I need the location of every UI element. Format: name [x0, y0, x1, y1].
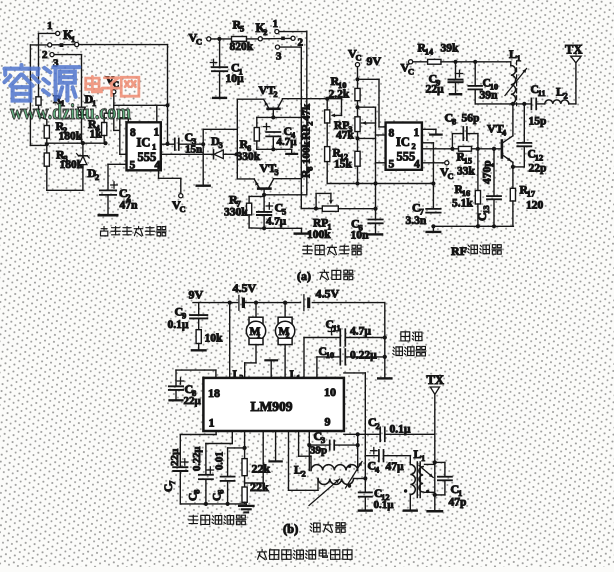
- capacitor C10r 0.22u: [317, 346, 385, 377]
- svg-text:1: 1: [516, 53, 520, 63]
- label demod filter: [393, 332, 426, 356]
- resistor 22k first: [242, 459, 271, 476]
- svg-text:10k: 10k: [205, 333, 224, 345]
- resistor R2 180k: [44, 119, 83, 143]
- svg-text:TX: TX: [427, 373, 444, 387]
- svg-text:22µ: 22µ: [426, 84, 445, 96]
- svg-text:47µ: 47µ: [386, 461, 405, 473]
- bottom rail RF: [433, 225, 513, 227]
- switch K2: [256, 18, 304, 63]
- IC1 555: [127, 122, 161, 171]
- svg-text:2: 2: [304, 121, 314, 125]
- svg-text:7: 7: [167, 480, 177, 485]
- wire IC2 pin right to C7 column: [422, 143, 434, 209]
- svg-text:9V: 9V: [189, 288, 204, 302]
- svg-text:IC: IC: [137, 136, 151, 150]
- wire VT2 collector line: [271, 99, 341, 120]
- svg-text:C: C: [196, 36, 202, 46]
- capacitor C6r 0.01: [212, 431, 247, 504]
- transformer L1r: [404, 447, 433, 498]
- svg-text:2: 2: [301, 468, 305, 478]
- svg-text:0.22µ: 0.22µ: [350, 350, 377, 362]
- svg-text:18: 18: [208, 386, 220, 400]
- resistor R4 1k: [88, 113, 114, 143]
- Vc terminal R14: [401, 60, 428, 77]
- svg-text:C: C: [355, 52, 361, 62]
- capacitor C1 10u: [210, 39, 244, 97]
- resistor R3 180k: [44, 145, 84, 171]
- antenna TX receiver: [427, 373, 444, 462]
- svg-text:0.22µ: 0.22µ: [192, 447, 203, 471]
- svg-text:17: 17: [527, 188, 536, 198]
- capacitor C6 10n: [351, 209, 383, 242]
- motor M1: [233, 303, 266, 383]
- svg-text:2: 2: [42, 49, 48, 61]
- svg-text:C: C: [447, 171, 453, 181]
- ground C1: [213, 97, 226, 99]
- svg-text:4: 4: [375, 464, 380, 474]
- receiver filter rail: [180, 502, 246, 506]
- wire RF bottom: [475, 102, 531, 106]
- capacitor C4r 47u: [365, 448, 410, 475]
- resistor R7 330k: [224, 193, 264, 229]
- svg-text:0.1µ: 0.1µ: [374, 499, 395, 511]
- Vc terminal 9V: [348, 47, 382, 89]
- svg-text:LM909: LM909: [251, 399, 293, 414]
- capacitor C12r 0.1u: [359, 488, 395, 511]
- svg-text:470p: 470p: [482, 160, 494, 184]
- capacitor C11r 4.7u: [304, 319, 385, 378]
- svg-text:47n: 47n: [120, 200, 139, 212]
- wire right loop ground: [428, 462, 442, 511]
- IC LM909: [203, 378, 344, 431]
- wire K1 arm to IC1 drop: [79, 45, 168, 144]
- capacitor C5 4.7u: [257, 201, 287, 231]
- ground mini C4: [286, 153, 297, 155]
- svg-text:5.1k: 5.1k: [452, 198, 473, 210]
- transistor VT3: [254, 161, 278, 195]
- wire pin4 to Vc: [159, 170, 186, 214]
- svg-text:22µ: 22µ: [169, 448, 181, 466]
- svg-text:1: 1: [414, 127, 420, 139]
- capacitor C10 39n: [468, 62, 498, 104]
- capacitor C7 3.3n: [406, 201, 441, 229]
- capacitor C9 22u: [426, 62, 463, 96]
- ground C3 node: [197, 184, 210, 186]
- wire pin stub L2r lower: [289, 431, 319, 490]
- svg-text:0.1µ: 0.1µ: [168, 319, 189, 331]
- wire K2 contact1 drop: [279, 32, 307, 195]
- svg-text:2: 2: [95, 172, 99, 182]
- capacitor C12 22p: [517, 104, 546, 174]
- wire K2c3 down to RP1: [301, 179, 322, 209]
- wire L1r winding links: [425, 464, 435, 492]
- wire VT4 emitter down: [511, 162, 524, 188]
- potentiometer RP3 47k: [334, 117, 376, 152]
- wire L1r left ground: [404, 495, 417, 511]
- ground battery column: [378, 377, 391, 379]
- svg-text:2.2k: 2.2k: [329, 89, 350, 101]
- wire C4 bottom to mini ground: [257, 149, 292, 153]
- svg-text:9: 9: [325, 415, 331, 429]
- ground filter rail: [239, 504, 253, 513]
- transistor VT4: [487, 122, 513, 163]
- resistor R16 5.1k: [452, 149, 481, 229]
- svg-text:820k: 820k: [230, 41, 254, 53]
- svg-text:2: 2: [263, 27, 267, 37]
- svg-text:3: 3: [274, 167, 278, 177]
- svg-text:330k: 330k: [224, 207, 248, 219]
- resistor 22k second: [242, 476, 269, 504]
- svg-text:2: 2: [273, 89, 277, 99]
- rail from LM909 corner: [344, 432, 380, 436]
- svg-text:3.3n: 3.3n: [406, 215, 427, 227]
- svg-text:39n: 39n: [480, 90, 499, 102]
- svg-text:15k: 15k: [334, 159, 353, 171]
- svg-text:1: 1: [154, 127, 160, 139]
- ground 10k: [192, 349, 206, 351]
- svg-text:C: C: [179, 204, 185, 214]
- svg-text:0.01: 0.01: [215, 452, 226, 470]
- svg-text:4.5V: 4.5V: [233, 281, 257, 295]
- svg-text:10: 10: [324, 385, 336, 399]
- resistor R6 330k: [237, 128, 261, 164]
- svg-text:RF: RF: [451, 244, 467, 258]
- capacitor C2 47n: [100, 182, 138, 215]
- wire IC2 output: [422, 147, 459, 151]
- resistor R1: [36, 92, 65, 126]
- svg-text:5: 5: [130, 159, 136, 171]
- svg-text:3: 3: [321, 435, 325, 445]
- battery B2 4.5V: [304, 287, 340, 311]
- pin stub bracket: [266, 360, 278, 378]
- wire Vc to IC2 pin8: [358, 79, 386, 127]
- svg-text:9V: 9V: [367, 54, 382, 68]
- inductor L1 adjustable: [505, 47, 527, 106]
- label RF oscillator: [451, 244, 502, 258]
- wire VT3 collector right: [273, 178, 301, 180]
- audio rail: [327, 181, 435, 185]
- svg-text:330k: 330k: [237, 151, 261, 163]
- svg-text:8: 8: [130, 127, 136, 139]
- IC2 555: [386, 123, 422, 171]
- ground C9: [450, 93, 461, 95]
- motor M2: [275, 303, 300, 383]
- wire R6 top link: [257, 117, 302, 127]
- svg-text:22p: 22p: [529, 163, 547, 175]
- svg-text:RP: RP: [301, 125, 313, 140]
- resistor R8 100k: [325, 123, 330, 184]
- wire Vc to pin8 bracket: [120, 118, 129, 155]
- svg-text:22µ: 22µ: [184, 395, 202, 407]
- ground VT3 net: [295, 232, 309, 234]
- ground C12r: [359, 509, 372, 511]
- watermark dianziwang: [86, 76, 139, 96]
- svg-text:1k: 1k: [90, 129, 103, 141]
- svg-text:11: 11: [538, 88, 546, 98]
- resistor 10k: [196, 330, 223, 350]
- svg-text:15p: 15p: [529, 116, 547, 128]
- wire rail under R4: [47, 141, 108, 145]
- capacitor C9r 0.1u: [168, 303, 208, 331]
- wire L1r right loop: [433, 460, 445, 476]
- wire R10 node to mid column: [358, 106, 376, 108]
- wire pin stub L2r upper: [299, 431, 311, 456]
- capacitor C8rr 0.22u: [188, 431, 233, 504]
- antenna TX: [565, 43, 582, 104]
- svg-text:14: 14: [425, 46, 434, 56]
- svg-text:22k: 22k: [250, 480, 269, 494]
- inductor L2: [545, 85, 576, 104]
- wire box corner down C12r: [344, 373, 368, 492]
- wire VT3 emitter left: [237, 178, 254, 180]
- svg-text:4.7µ: 4.7µ: [277, 136, 298, 148]
- diode D1: [78, 92, 97, 143]
- svg-text:555: 555: [138, 150, 157, 164]
- wire R3 bottom loop: [47, 166, 83, 190]
- battery B1 4.5V: [233, 281, 257, 310]
- capacitor C7r 22u: [163, 448, 188, 504]
- svg-text:15: 15: [464, 155, 473, 165]
- wire K1 arm left rail: [30, 45, 47, 145]
- ground stub pin: [270, 431, 282, 461]
- svg-text:4: 4: [414, 159, 420, 171]
- svg-text:www.dziuu.com: www.dziuu.com: [10, 99, 131, 124]
- svg-text:4.5V: 4.5V: [316, 287, 340, 301]
- resistor R5 820k: [230, 18, 259, 54]
- wire pin5 to C2: [108, 164, 127, 190]
- capacitor C3r 39p: [307, 429, 360, 471]
- svg-text:1: 1: [421, 453, 425, 463]
- svg-text:3: 3: [276, 51, 282, 63]
- capacitor C13 470p: [477, 149, 501, 229]
- svg-text:4.7µ: 4.7µ: [266, 216, 287, 228]
- resistor R17 120: [510, 185, 543, 227]
- potentiometer RP1 100k: [307, 193, 378, 241]
- wire C3 node to ground: [201, 129, 237, 184]
- wire bottom to ground: [264, 228, 301, 232]
- svg-text:12: 12: [535, 152, 544, 162]
- svg-text:RP: RP: [313, 218, 328, 230]
- svg-text:100k: 100k: [307, 229, 331, 241]
- svg-text:4: 4: [502, 127, 507, 137]
- label loop filter: [188, 515, 198, 523]
- svg-text:11: 11: [333, 323, 341, 333]
- ground C6: [369, 233, 382, 235]
- svg-text:10n: 10n: [351, 230, 370, 242]
- switch K1: [42, 20, 79, 70]
- wire Vc top line: [114, 103, 170, 122]
- transformer L2r: [294, 456, 365, 505]
- svg-text:TX: TX: [565, 43, 582, 57]
- svg-text:47p: 47p: [449, 497, 467, 509]
- ground C2: [99, 214, 117, 217]
- capacitor C3 15n: [161, 130, 203, 156]
- node R2-R3: [45, 142, 49, 146]
- label R8 100k RP2 47k rotated: [301, 141, 315, 179]
- resistor R12 15k: [333, 148, 361, 184]
- label audio generator: [302, 245, 312, 254]
- svg-text:39p: 39p: [310, 445, 327, 457]
- Vc terminal R5 row: [189, 31, 232, 47]
- svg-text:47k: 47k: [301, 103, 313, 121]
- diode D3: [161, 134, 239, 159]
- diode D2 zener: [77, 143, 100, 182]
- svg-text:10µ: 10µ: [226, 73, 245, 85]
- watermark rongyuan: [4, 65, 79, 101]
- wire IC2 pin1 stub: [422, 129, 442, 134]
- svg-text:8: 8: [452, 116, 456, 126]
- wire VT3 base branch: [262, 193, 307, 212]
- svg-text:180k: 180k: [59, 131, 83, 143]
- svg-text:1: 1: [209, 416, 215, 430]
- capacitor C8r 22u: [169, 370, 216, 407]
- vertical mid column wire: [376, 107, 386, 209]
- label b receiver: [283, 522, 346, 536]
- svg-text:100k: 100k: [301, 141, 313, 165]
- Vc terminal left: [106, 73, 120, 130]
- power rail receiver: [193, 301, 385, 305]
- svg-text:4.7µ: 4.7µ: [350, 326, 371, 338]
- resistor R14 39k: [418, 43, 511, 65]
- svg-text:1: 1: [71, 34, 75, 44]
- wire IC2 pin4 Vc: [422, 161, 454, 181]
- svg-text:8: 8: [304, 167, 314, 171]
- resistor R15 33k: [457, 146, 501, 177]
- label a transmitter: [297, 269, 353, 283]
- svg-text:56p: 56p: [462, 113, 480, 125]
- resistor R10 2.2k: [329, 74, 361, 117]
- svg-text:6: 6: [215, 490, 225, 494]
- wire battery rail down: [383, 303, 387, 378]
- wire VT4 collector up: [512, 104, 514, 136]
- wire pin1 loop: [180, 431, 216, 467]
- wire K2 contact3 drop: [280, 47, 302, 179]
- svg-text:5: 5: [240, 23, 244, 33]
- capacitor C11 15p: [529, 84, 547, 128]
- label title: [257, 549, 266, 559]
- capacitor C8 56p: [445, 111, 480, 149]
- capacitor C1r 47p: [433, 477, 467, 509]
- svg-text:2: 2: [563, 90, 567, 100]
- wire rail to LM909 top: [229, 303, 231, 378]
- svg-text:555: 555: [397, 150, 416, 164]
- svg-text:3: 3: [218, 140, 222, 150]
- transistor VT2: [259, 83, 283, 117]
- svg-text:8: 8: [389, 128, 395, 140]
- wire K1 contact2 to D1: [54, 55, 81, 106]
- svg-text:2: 2: [375, 421, 379, 431]
- svg-text:0.1µ: 0.1µ: [390, 424, 411, 436]
- svg-text:5: 5: [389, 159, 395, 171]
- ground bottom rail: [427, 226, 441, 232]
- svg-text:C: C: [408, 66, 414, 76]
- svg-text:16: 16: [462, 188, 471, 198]
- capacitor C2r 0.1u: [368, 415, 435, 441]
- svg-text:8: 8: [191, 490, 201, 494]
- svg-text:39k: 39k: [441, 43, 460, 55]
- capacitor C4 4.7u: [263, 123, 297, 151]
- svg-text:(a): (a): [297, 269, 311, 283]
- svg-text:1: 1: [47, 20, 53, 32]
- svg-text:13: 13: [481, 205, 491, 214]
- svg-text:47k: 47k: [336, 130, 355, 142]
- svg-text:22k: 22k: [252, 462, 271, 476]
- potentiometer RP2 47k: [325, 97, 342, 123]
- wire 22k junction stub: [245, 431, 264, 483]
- wire VT2 emitter left: [237, 99, 263, 179]
- wire K1 contact1 to R1: [39, 33, 56, 96]
- svg-text:4: 4: [155, 159, 161, 171]
- svg-text:120: 120: [526, 200, 544, 212]
- svg-text:(b): (b): [283, 522, 298, 536]
- svg-text:1: 1: [273, 18, 279, 30]
- svg-text:10: 10: [326, 350, 335, 360]
- svg-text:33k: 33k: [457, 166, 476, 178]
- svg-text:IC: IC: [396, 135, 410, 149]
- label zhankongbi generator: [100, 226, 107, 235]
